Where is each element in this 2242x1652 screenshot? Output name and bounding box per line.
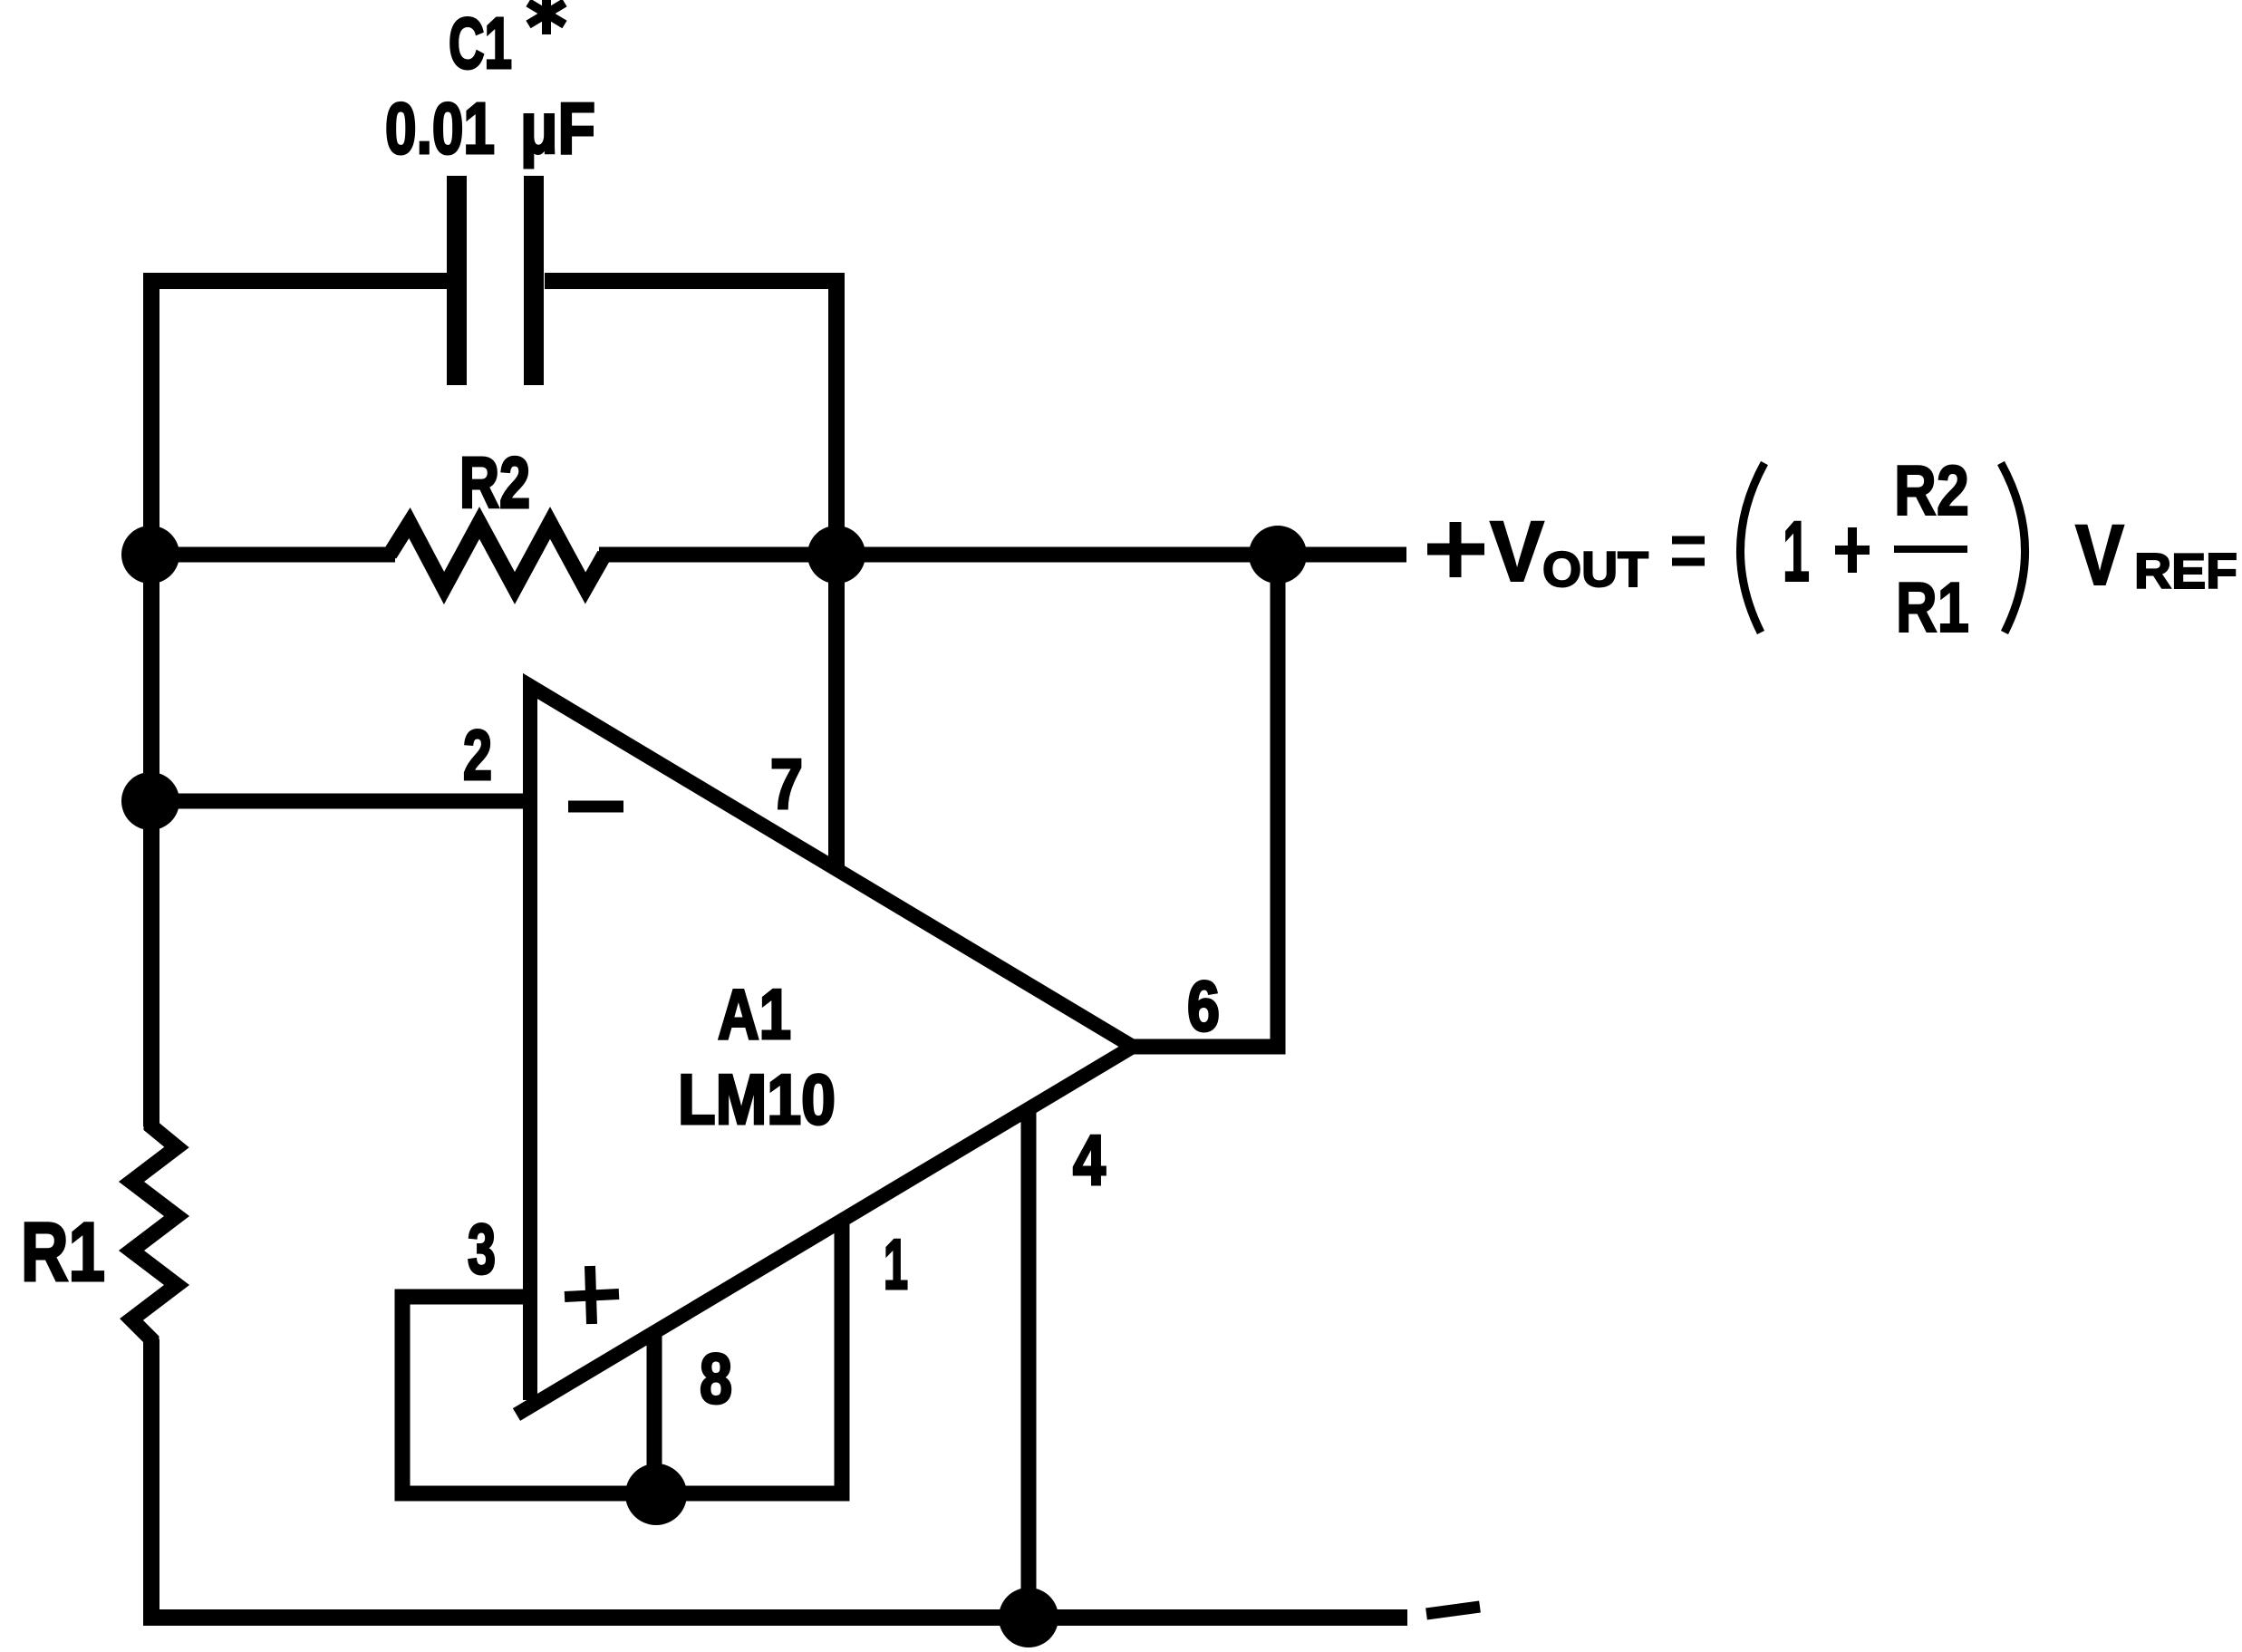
svg-text:R2: R2 xyxy=(1894,450,1969,530)
node: pin 8 junction xyxy=(625,1464,687,1525)
wire: lower left rail and bottom rail xyxy=(151,1339,1407,1618)
wire: top-left C1 feed and upper left rail xyxy=(151,281,450,1126)
svg-text:OUT: OUT xyxy=(1542,541,1648,597)
node: R2 right / pin 7 junction xyxy=(807,526,865,584)
node: pin 4 bottom junction xyxy=(999,1588,1058,1647)
node: inverting input junction xyxy=(121,772,179,830)
svg-text:3: 3 xyxy=(468,1209,496,1289)
svg-text:1: 1 xyxy=(884,1224,908,1304)
wire: pin 8 drop xyxy=(647,1334,662,1493)
formula plus sign xyxy=(1427,522,1484,577)
wire: pin 2 inverting input xyxy=(150,794,531,809)
svg-text:8: 8 xyxy=(700,1338,732,1418)
wire: pin 3 loop to pin 1 xyxy=(402,1221,842,1493)
svg-text:LM10: LM10 xyxy=(678,1059,836,1139)
wire: R2 left lead xyxy=(151,547,395,563)
wire: C1 right lead and pin-7 rail xyxy=(545,281,836,870)
wire: R2 right lead to output node xyxy=(599,547,1406,563)
formula inner plus sign xyxy=(1835,527,1870,573)
svg-text:7: 7 xyxy=(770,744,803,824)
formula left parenthesis xyxy=(1740,463,1764,633)
svg-text:6: 6 xyxy=(1187,966,1220,1046)
svg-text:2: 2 xyxy=(463,715,492,795)
minus sign inside op-amp xyxy=(568,801,623,813)
svg-text:1: 1 xyxy=(1783,504,1810,600)
asterisk on C1 xyxy=(528,0,565,34)
node: output junction xyxy=(1249,526,1307,584)
wire: pin 6 output to node xyxy=(1133,555,1278,1047)
svg-text:V: V xyxy=(2075,507,2124,604)
op-amp A1 LM10 xyxy=(517,686,1133,1415)
svg-text:0.01: 0.01 xyxy=(385,88,495,169)
formula fraction bar xyxy=(1894,546,1967,553)
svg-text:R1: R1 xyxy=(21,1206,105,1299)
wire: pin 4 to negative rail xyxy=(1021,1109,1037,1618)
formula equals sign xyxy=(1672,540,1705,562)
resistor R1 xyxy=(131,1115,177,1352)
svg-text:R1: R1 xyxy=(1896,567,1969,647)
svg-text:μF: μF xyxy=(520,88,595,169)
svg-text:A1: A1 xyxy=(718,974,791,1054)
negative terminal dash xyxy=(1426,1607,1480,1614)
svg-text:R2: R2 xyxy=(459,442,530,523)
capacitor C1 xyxy=(457,176,534,385)
svg-text:C1: C1 xyxy=(449,3,512,83)
svg-text:REF: REF xyxy=(2134,543,2237,599)
resistor R2 xyxy=(390,523,604,588)
svg-text:V: V xyxy=(1490,504,1544,600)
svg-text:4: 4 xyxy=(1073,1120,1106,1200)
formula right parenthesis xyxy=(2001,463,2025,633)
plus sign inside op-amp xyxy=(565,1266,619,1324)
node: R2 left junction xyxy=(121,526,179,584)
